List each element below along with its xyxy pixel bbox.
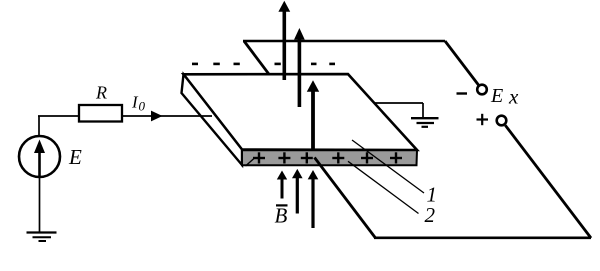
wire: source bottom to ground [39, 177, 41, 232]
node: Hall voltage terminal minus [477, 85, 487, 95]
wire: back plane left edge lower segment [315, 158, 376, 239]
plus sign [477, 114, 489, 125]
svg-text:0: 0 [139, 99, 146, 114]
arrow: tall field arrow middle [294, 28, 305, 107]
plate left side face [182, 74, 243, 165]
svg-text:2: 2 [425, 203, 436, 227]
wire: back plane right edge upper segment to terminal [445, 41, 479, 85]
wire: top horizontal segment to resistor R [38, 115, 80, 117]
arrow: B field arrow 1 (left short) [277, 171, 287, 199]
small corner line inside band [246, 158, 255, 166]
wire: back plane bottom edge [374, 237, 591, 240]
leader line to label 1 [352, 140, 424, 193]
svg-text:E: E [490, 85, 503, 107]
label B vector [275, 204, 288, 228]
leader line to label 2 [348, 161, 419, 213]
svg-text:x: x [508, 85, 519, 109]
arrow inside source [38, 148, 41, 176]
wire: resistor to plate with current arrow [122, 115, 212, 117]
arrow: B field arrow 3 (right long) [308, 170, 319, 228]
svg-text:E: E [68, 145, 82, 169]
wire: ground tap vertical segment [422, 103, 424, 117]
arrow: current direction I0 [151, 111, 163, 122]
node: back plane (Hall probe plane) top edge [243, 40, 445, 43]
minus sign [457, 92, 468, 94]
negative charge row (dashes) above plate [192, 63, 335, 66]
arrow: field arrow inside plate [307, 80, 319, 149]
arrow: tall field arrow left [278, 1, 290, 80]
charge layer 2: gray band with plus charges [242, 150, 417, 165]
plate top face (sample 1) [184, 74, 418, 150]
ground symbol (source side) [27, 233, 57, 242]
wire: source E top vertical segment [38, 116, 40, 137]
svg-text:B: B [275, 204, 288, 228]
ground symbol (plate side) [411, 118, 439, 127]
arrow: B field arrow 2 (middle) [292, 169, 303, 214]
current source E (EMF source) [19, 136, 60, 177]
resistor R1 (R) [79, 105, 122, 122]
wire: back plane left edge upper segment [244, 41, 270, 75]
svg-text:R: R [95, 83, 107, 103]
plus charge row in band [253, 152, 402, 163]
wire: back plane right edge lower segment from terminal [505, 125, 591, 238]
wire: plate edge to ground horizontal segment [374, 102, 423, 104]
node: Hall voltage terminal plus [497, 116, 507, 126]
